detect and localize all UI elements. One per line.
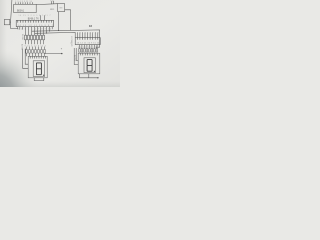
node +U terminal dot — [61, 53, 62, 54]
resistor R4 — [34, 35, 36, 40]
connector box row HG1 — [26, 50, 46, 54]
svg-text:В03А1: В03А1 — [17, 9, 25, 12]
svg-text:13 12 11 10 9 15 14: 13 12 11 10 9 15 14 — [77, 43, 100, 45]
wire DD3 pin to bus1 — [49, 30, 51, 31]
svg-text:ПМ: ПМ — [59, 8, 62, 10]
wire left vertical from top — [11, 0, 18, 28]
DD3 bottom pins — [18, 27, 53, 30]
segment wires DD3 to resistors — [26, 27, 44, 36]
resistor R3 — [31, 35, 33, 40]
DD4 inner pin ticks — [77, 38, 97, 40]
node bus tick dot — [96, 47, 97, 48]
HG1 digit window — [33, 61, 44, 77]
text labels (tiny, appear as smudges) — [15, 1, 99, 62]
wires number row to connector row — [27, 47, 45, 50]
svg-text:АЛ304: АЛ304 — [21, 44, 24, 51]
bus wire 2 — [35, 32, 76, 37]
svg-text:1 2 3 4 5 6 7 8 9 10: 1 2 3 4 5 6 7 8 9 10 — [18, 29, 51, 31]
svg-text:9 10 5 12 8 14 4 13: 9 10 5 12 8 14 4 13 — [78, 47, 98, 49]
node terminal dot right — [97, 77, 98, 78]
seven-segment digit HG2 — [87, 60, 92, 72]
svg-text:ВУ66.1 Тб: ВУ66.1 Тб — [28, 19, 39, 21]
page background — [0, 0, 120, 87]
page corner shadow bottom-left — [0, 0, 120, 87]
svg-text:14 13 12 11 10 9 8 7: 14 13 12 11 10 9 8 7 — [18, 25, 53, 27]
DD4 top pins — [77, 32, 97, 37]
wire wrap left HG2 b — [76, 48, 78, 61]
DD1 top pins — [16, 2, 33, 4]
resistor R6 — [40, 35, 42, 40]
wire wrap left 2 — [25, 49, 28, 65]
HG2 inner ticks — [80, 53, 97, 55]
wires resistors to HG1 pins — [26, 40, 44, 44]
wire DD3 pin to bus2 — [46, 30, 48, 33]
HG2 digit window — [84, 58, 95, 73]
decimal point HG2 — [94, 71, 95, 72]
display HG2 outer box — [78, 53, 100, 74]
resistor R1 — [25, 35, 27, 40]
IC DD1 box — [14, 4, 37, 12]
junction node bus2/pin wire — [46, 33, 47, 34]
wire HG1 bottom loop — [34, 78, 44, 81]
IC DD2 box — [58, 4, 65, 12]
bus wire 1 — [32, 30, 100, 47]
pin ticks on top wire — [51, 1, 53, 4]
IC DD3 box — [16, 20, 53, 26]
wire DD2 right to bus — [65, 10, 71, 31]
svg-text:1 5 4 3 9 11 13: 1 5 4 3 9 11 13 — [15, 1, 32, 3]
resistor R2 — [28, 35, 30, 40]
display HG1 outer box — [28, 56, 47, 78]
svg-text:9 11: 9 11 — [50, 1, 53, 3]
crystal ZQ1 — [4, 20, 10, 25]
connector box row HG2 — [79, 49, 98, 52]
DD3 inner top pin ticks — [18, 20, 52, 22]
wire ZQ1 to vertical — [9, 21, 12, 23]
wire HG2 bottom to terminal — [89, 74, 98, 78]
svg-text:R2-R8: R2-R8 — [21, 34, 23, 41]
wire DD1 to DD2 — [36, 3, 57, 6]
seven-segment digit HG1 — [36, 63, 41, 75]
resistor R7 — [43, 35, 45, 40]
wire wrap left 1 — [23, 49, 29, 69]
IC DD4 box — [75, 38, 100, 45]
wire HG2 bottom — [79, 74, 88, 78]
wire DD2 bottom to bus — [58, 12, 60, 31]
svg-text:АЛ304: АЛ304 — [74, 55, 77, 62]
wire wrap left HG2 a — [74, 48, 78, 65]
junction node bus1/pin wire — [49, 30, 50, 31]
decimal point HG1 — [43, 75, 44, 76]
DD4 bottom pins to number row — [79, 45, 97, 49]
resistor R5 — [37, 35, 39, 40]
wire HG1 to +U terminal — [45, 53, 62, 55]
svg-text:К176ИД2П: К176ИД2П — [70, 37, 72, 47]
svg-text:16 15 3 2 6 5 4 9 11 7: 16 15 3 2 6 5 4 9 11 7 — [19, 15, 51, 17]
wires connector row to HG1 — [27, 53, 45, 56]
HG1 inner ticks — [30, 56, 45, 58]
svg-text:9 10 5 12 8 14 4: 9 10 5 12 8 14 4 — [25, 45, 46, 47]
DD3 top entry wires — [40, 15, 44, 20]
svg-text:13: 13 — [96, 45, 98, 47]
svg-text:1 2 3 4 5 6 7 8 9: 1 2 3 4 5 6 7 8 9 — [77, 32, 99, 34]
junction node bus1/DD2 wire — [58, 30, 59, 31]
